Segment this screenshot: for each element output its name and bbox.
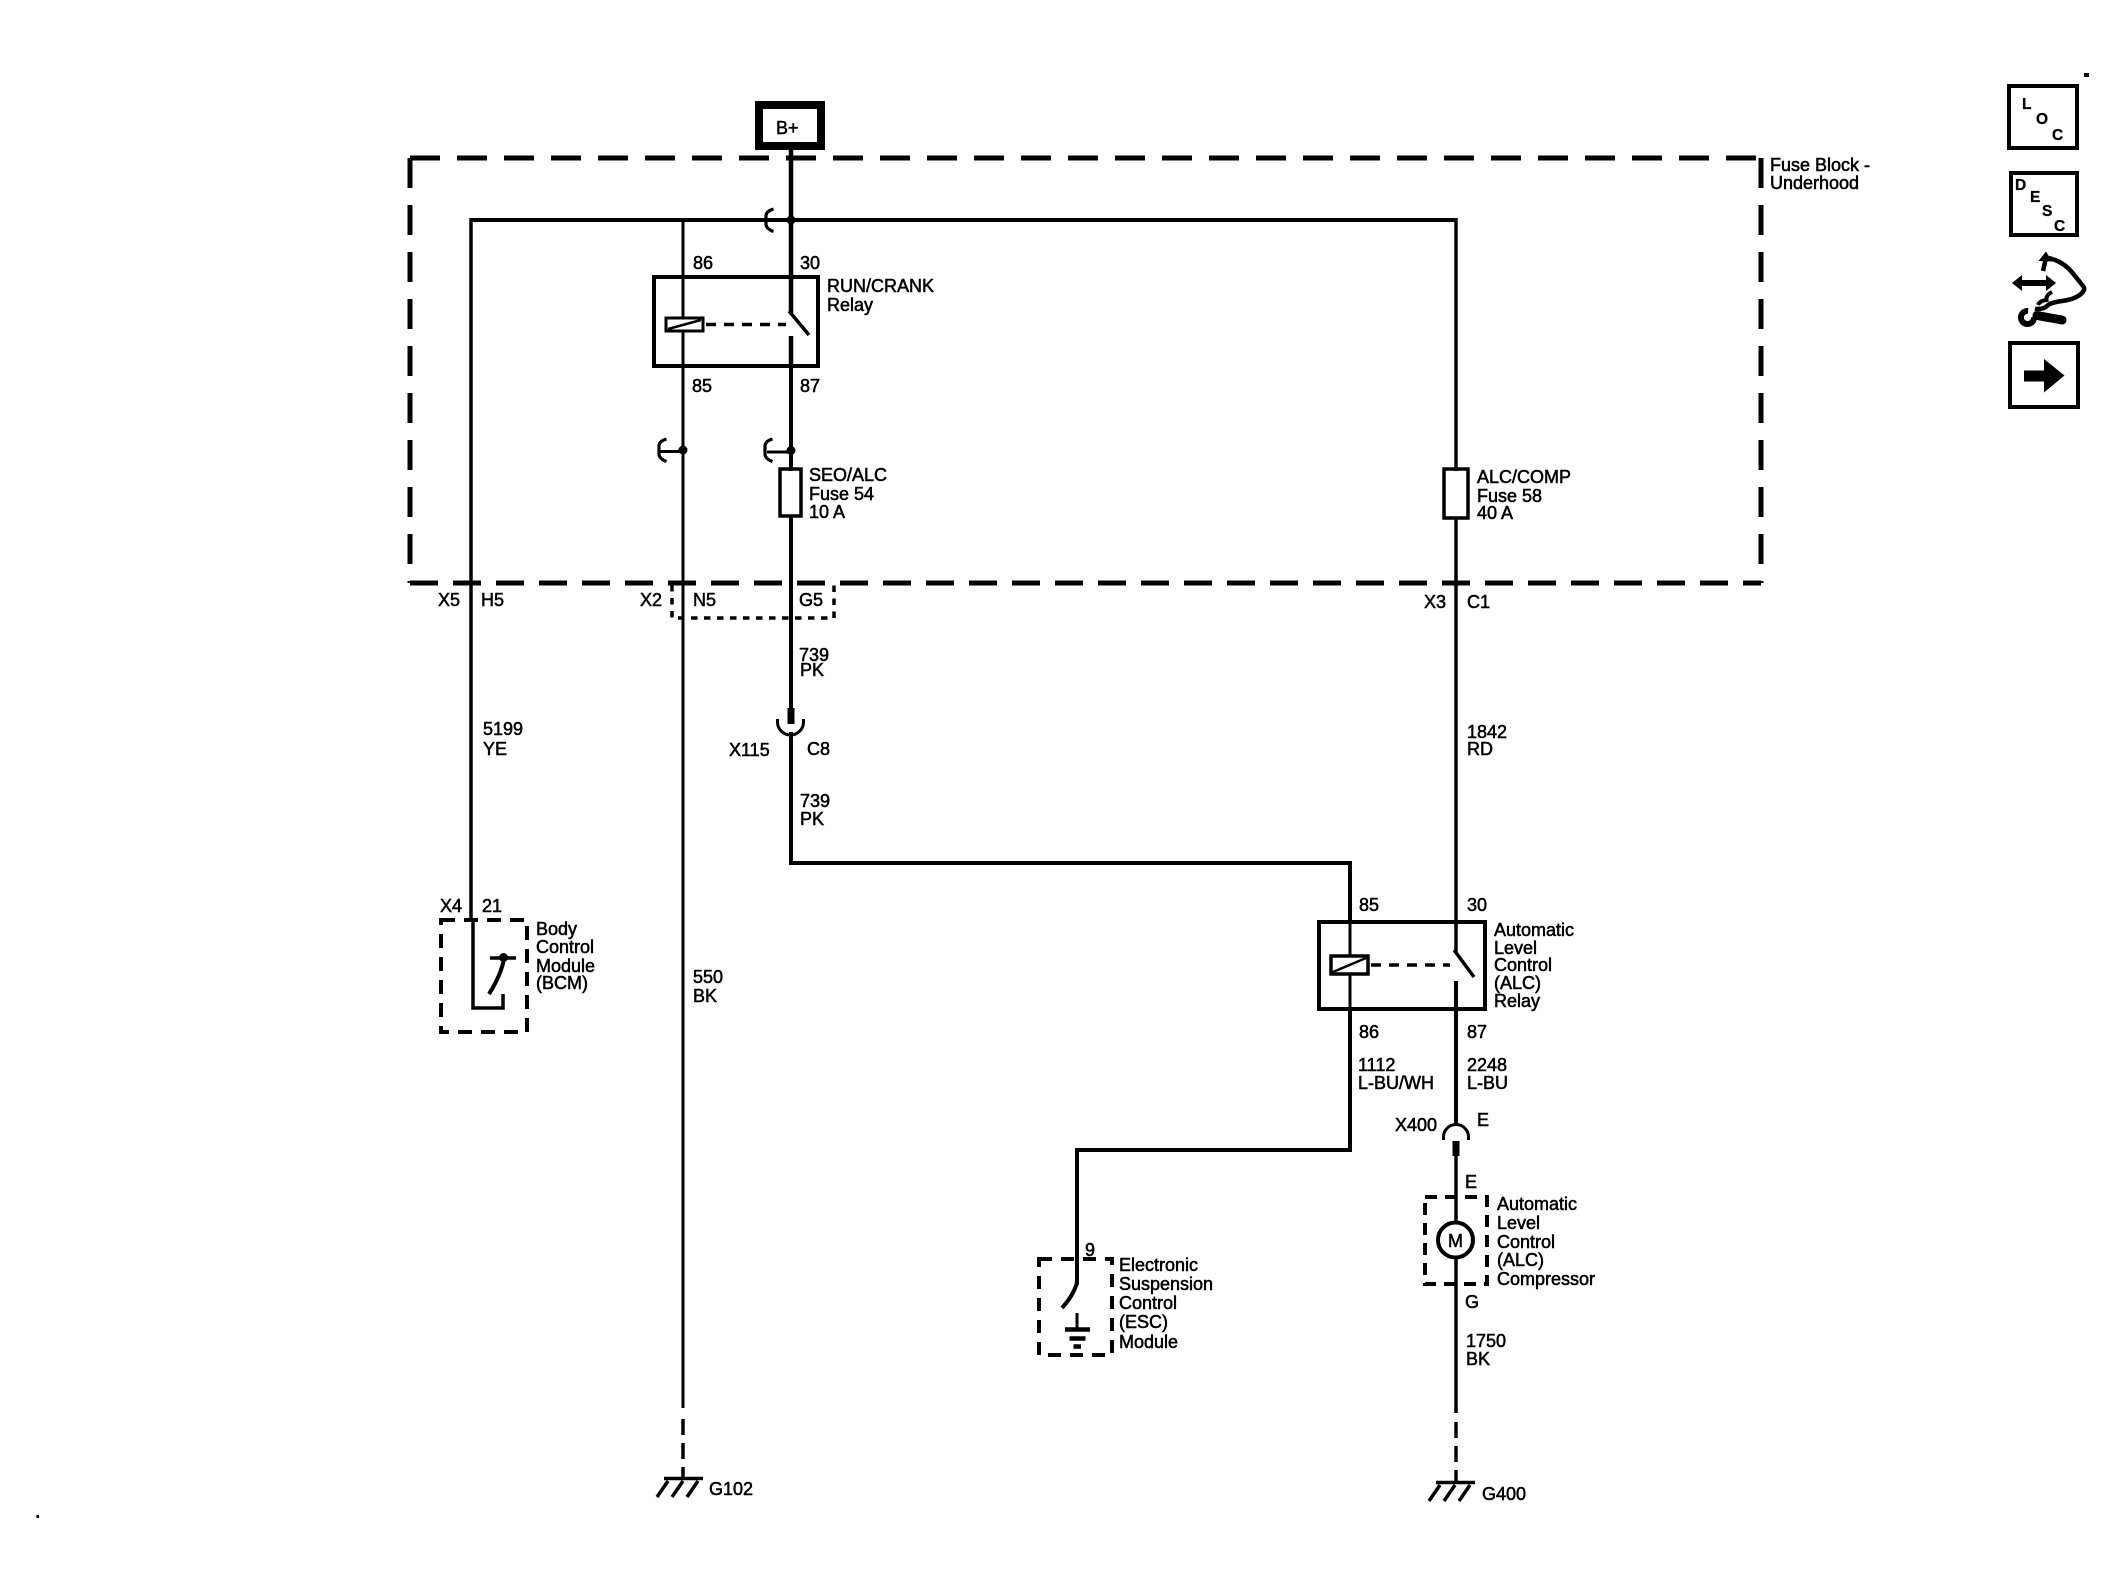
svg-text:Underhood: Underhood: [1770, 173, 1859, 193]
wire dashed segment above G102: [681, 1419, 685, 1479]
svg-text:G: G: [1465, 1292, 1479, 1312]
svg-text:H5: H5: [481, 590, 504, 610]
svg-text:L-BU: L-BU: [1467, 1073, 1508, 1093]
node junction at B+ wire and feed: [787, 216, 796, 225]
svg-text:Body: Body: [536, 919, 577, 939]
svg-text:PK: PK: [800, 660, 824, 680]
icon DESC box: [2011, 173, 2077, 235]
module ALC compressor dashed box: [1425, 1197, 1487, 1284]
svg-text:739: 739: [800, 791, 830, 811]
svg-text:E: E: [1477, 1110, 1489, 1130]
wire 1112 L-BU/WH relay 86 to ESC: [1077, 1009, 1350, 1285]
svg-text:M: M: [1448, 1231, 1463, 1251]
svg-text:30: 30: [1467, 895, 1487, 915]
ESC internal ground stem: [1076, 1313, 1079, 1329]
svg-text:L: L: [2022, 96, 2031, 113]
svg-text:Control: Control: [1494, 955, 1552, 975]
svg-text:PK: PK: [800, 809, 824, 829]
relay pin 30 wire inside: [789, 277, 794, 313]
stray dot bottom left: [37, 1515, 40, 1518]
svg-text:1112: 1112: [1358, 1055, 1395, 1075]
svg-text:S: S: [2042, 203, 2052, 220]
svg-text:L-BU/WH: L-BU/WH: [1358, 1073, 1434, 1093]
relay coil wire pin 85 inside: [682, 331, 685, 366]
wire pin 87 down to fuse: [789, 366, 793, 471]
svg-text:RD: RD: [1467, 739, 1493, 759]
relay pin 87 stub inside: [789, 336, 794, 366]
relay coil symbol: [666, 318, 703, 331]
svg-text:Relay: Relay: [1494, 991, 1540, 1011]
svg-text:85: 85: [1359, 895, 1379, 915]
svg-text:86: 86: [693, 253, 713, 273]
ALC relay coil wire pin 86 inside: [1349, 974, 1352, 1009]
svg-text:X4: X4: [440, 896, 462, 916]
current hook at top junction: [766, 209, 774, 232]
ALC relay pin 87 stub inside: [1454, 981, 1458, 1009]
svg-text:Control: Control: [1119, 1293, 1177, 1313]
svg-text:40 A: 40 A: [1477, 503, 1513, 523]
svg-text:Control: Control: [1497, 1232, 1555, 1252]
svg-text:G102: G102: [709, 1479, 753, 1499]
svg-text:C: C: [2054, 218, 2065, 235]
module BCM dashed box: [441, 920, 527, 1032]
svg-text:RUN/CRANK: RUN/CRANK: [827, 276, 934, 296]
svg-text:86: 86: [1359, 1022, 1379, 1042]
fuse ALC/COMP Fuse 58: [1444, 469, 1468, 518]
ALC relay coil wire pin 85 inside: [1349, 922, 1352, 958]
svg-text:E: E: [2030, 189, 2040, 206]
ground G400 symbol: [1429, 1483, 1475, 1502]
relay ALC box: [1319, 922, 1485, 1009]
fuse SEO/ALC Fuse 54: [780, 469, 801, 516]
BCM internal wire hook: [473, 922, 503, 1008]
ALC relay coil symbol: [1331, 956, 1368, 974]
svg-text:Suspension: Suspension: [1119, 1274, 1213, 1294]
icon wrench and arrows: [2012, 252, 2084, 328]
icon arrow box: [2010, 343, 2078, 407]
svg-text:N5: N5: [693, 590, 716, 610]
wire X400 to compressor motor: [1454, 1155, 1458, 1224]
relay RUN/CRANK box: [654, 277, 818, 366]
wire motor to G pin: [1454, 1258, 1458, 1413]
svg-text:X2: X2: [640, 590, 662, 610]
svg-text:550: 550: [693, 967, 723, 987]
relay coil wire pin 86 inside: [682, 277, 685, 320]
svg-text:X115: X115: [729, 740, 770, 760]
relay switch blade: [789, 311, 809, 335]
svg-text:C1: C1: [1467, 592, 1490, 612]
BCM switch lever: [489, 959, 504, 994]
svg-text:YE: YE: [483, 739, 507, 759]
svg-text:O: O: [2036, 111, 2048, 128]
svg-text:Compressor: Compressor: [1497, 1269, 1595, 1289]
splice node on 85 wire: [659, 439, 688, 462]
wire pin 85 down to splice: [682, 366, 685, 583]
svg-text:Automatic: Automatic: [1497, 1194, 1577, 1214]
svg-text:Level: Level: [1497, 1213, 1540, 1233]
svg-text:30: 30: [800, 253, 820, 273]
svg-text:21: 21: [482, 896, 502, 916]
svg-text:10 A: 10 A: [809, 502, 845, 522]
wire fuse54 to X115: [789, 516, 793, 710]
svg-text:(ALC): (ALC): [1494, 973, 1541, 993]
wire 550 BK down to G102: [682, 583, 685, 1408]
svg-text:(ALC): (ALC): [1497, 1250, 1544, 1270]
ESC internal ground bars: [1065, 1330, 1090, 1347]
svg-text:(ESC): (ESC): [1119, 1312, 1168, 1332]
svg-text:Electronic: Electronic: [1119, 1255, 1198, 1275]
svg-text:X400: X400: [1395, 1115, 1437, 1135]
connector X2 dotted box: [672, 585, 834, 618]
svg-text:Relay: Relay: [827, 295, 873, 315]
svg-text:2248: 2248: [1467, 1055, 1507, 1075]
svg-text:Fuse Block -: Fuse Block -: [1770, 155, 1870, 175]
svg-text:D: D: [2015, 177, 2026, 194]
svg-text:Fuse 54: Fuse 54: [809, 484, 874, 504]
wire 739 PK below X115: [791, 732, 1350, 924]
power symbol B+: [759, 105, 821, 146]
relay actuating dashed link: [706, 323, 786, 327]
svg-text:87: 87: [1467, 1022, 1487, 1042]
ALC relay switch blade: [1454, 950, 1474, 977]
splice node on 87 wire: [765, 439, 796, 462]
svg-text:G5: G5: [799, 590, 823, 610]
wire dashed segment above G400: [1454, 1422, 1458, 1483]
svg-text:E: E: [1465, 1172, 1477, 1192]
wire B+ down to relay pin 30: [789, 146, 794, 280]
connector X400 inline: [1444, 1125, 1469, 1157]
ground G102 symbol: [657, 1479, 703, 1498]
BCM switch pivot node: [499, 953, 508, 962]
wire left drop 471 to BCM: [469, 218, 473, 922]
svg-text:B+: B+: [776, 118, 799, 138]
svg-text:Automatic: Automatic: [1494, 920, 1574, 940]
ALC relay actuating dashed link: [1371, 963, 1450, 967]
svg-text:87: 87: [800, 376, 820, 396]
connector X115 C8 inline: [778, 708, 804, 735]
svg-text:BK: BK: [693, 986, 717, 1006]
motor M symbol: [1438, 1223, 1473, 1258]
svg-text:G400: G400: [1482, 1484, 1526, 1504]
module ESC dashed box: [1039, 1259, 1112, 1355]
svg-text:X3: X3: [1424, 592, 1446, 612]
svg-text:ALC/COMP: ALC/COMP: [1477, 467, 1571, 487]
svg-text:1750: 1750: [1466, 1331, 1506, 1351]
svg-text:BK: BK: [1466, 1349, 1490, 1369]
wire coil feed x=683 from bus to relay: [682, 220, 685, 280]
BCM switch pivot bar: [490, 956, 516, 960]
svg-text:85: 85: [692, 376, 712, 396]
wire 2248 L-BU relay 87 to X400: [1454, 1009, 1458, 1126]
svg-text:Module: Module: [1119, 1332, 1178, 1352]
icon LOC box: [2009, 86, 2077, 148]
svg-text:C8: C8: [807, 739, 830, 759]
ESC switch lever: [1062, 1283, 1077, 1308]
svg-text:SEO/ALC: SEO/ALC: [809, 465, 887, 485]
wire 1842 RD fuse58 to ALC relay 30: [1454, 518, 1458, 924]
svg-text:5199: 5199: [483, 719, 523, 739]
svg-text:Control: Control: [536, 937, 594, 957]
svg-text:C: C: [2052, 127, 2063, 144]
svg-text:X5: X5: [438, 590, 460, 610]
stray dot top right: [2084, 73, 2089, 77]
fuse block - underhood dashed box: [410, 158, 1761, 583]
svg-text:(BCM): (BCM): [536, 973, 588, 993]
wire horizontal feed y=220: [471, 218, 1456, 222]
ALC relay pin 30 wire inside: [1454, 922, 1458, 952]
wire right drop to fuse 58: [1454, 218, 1458, 471]
